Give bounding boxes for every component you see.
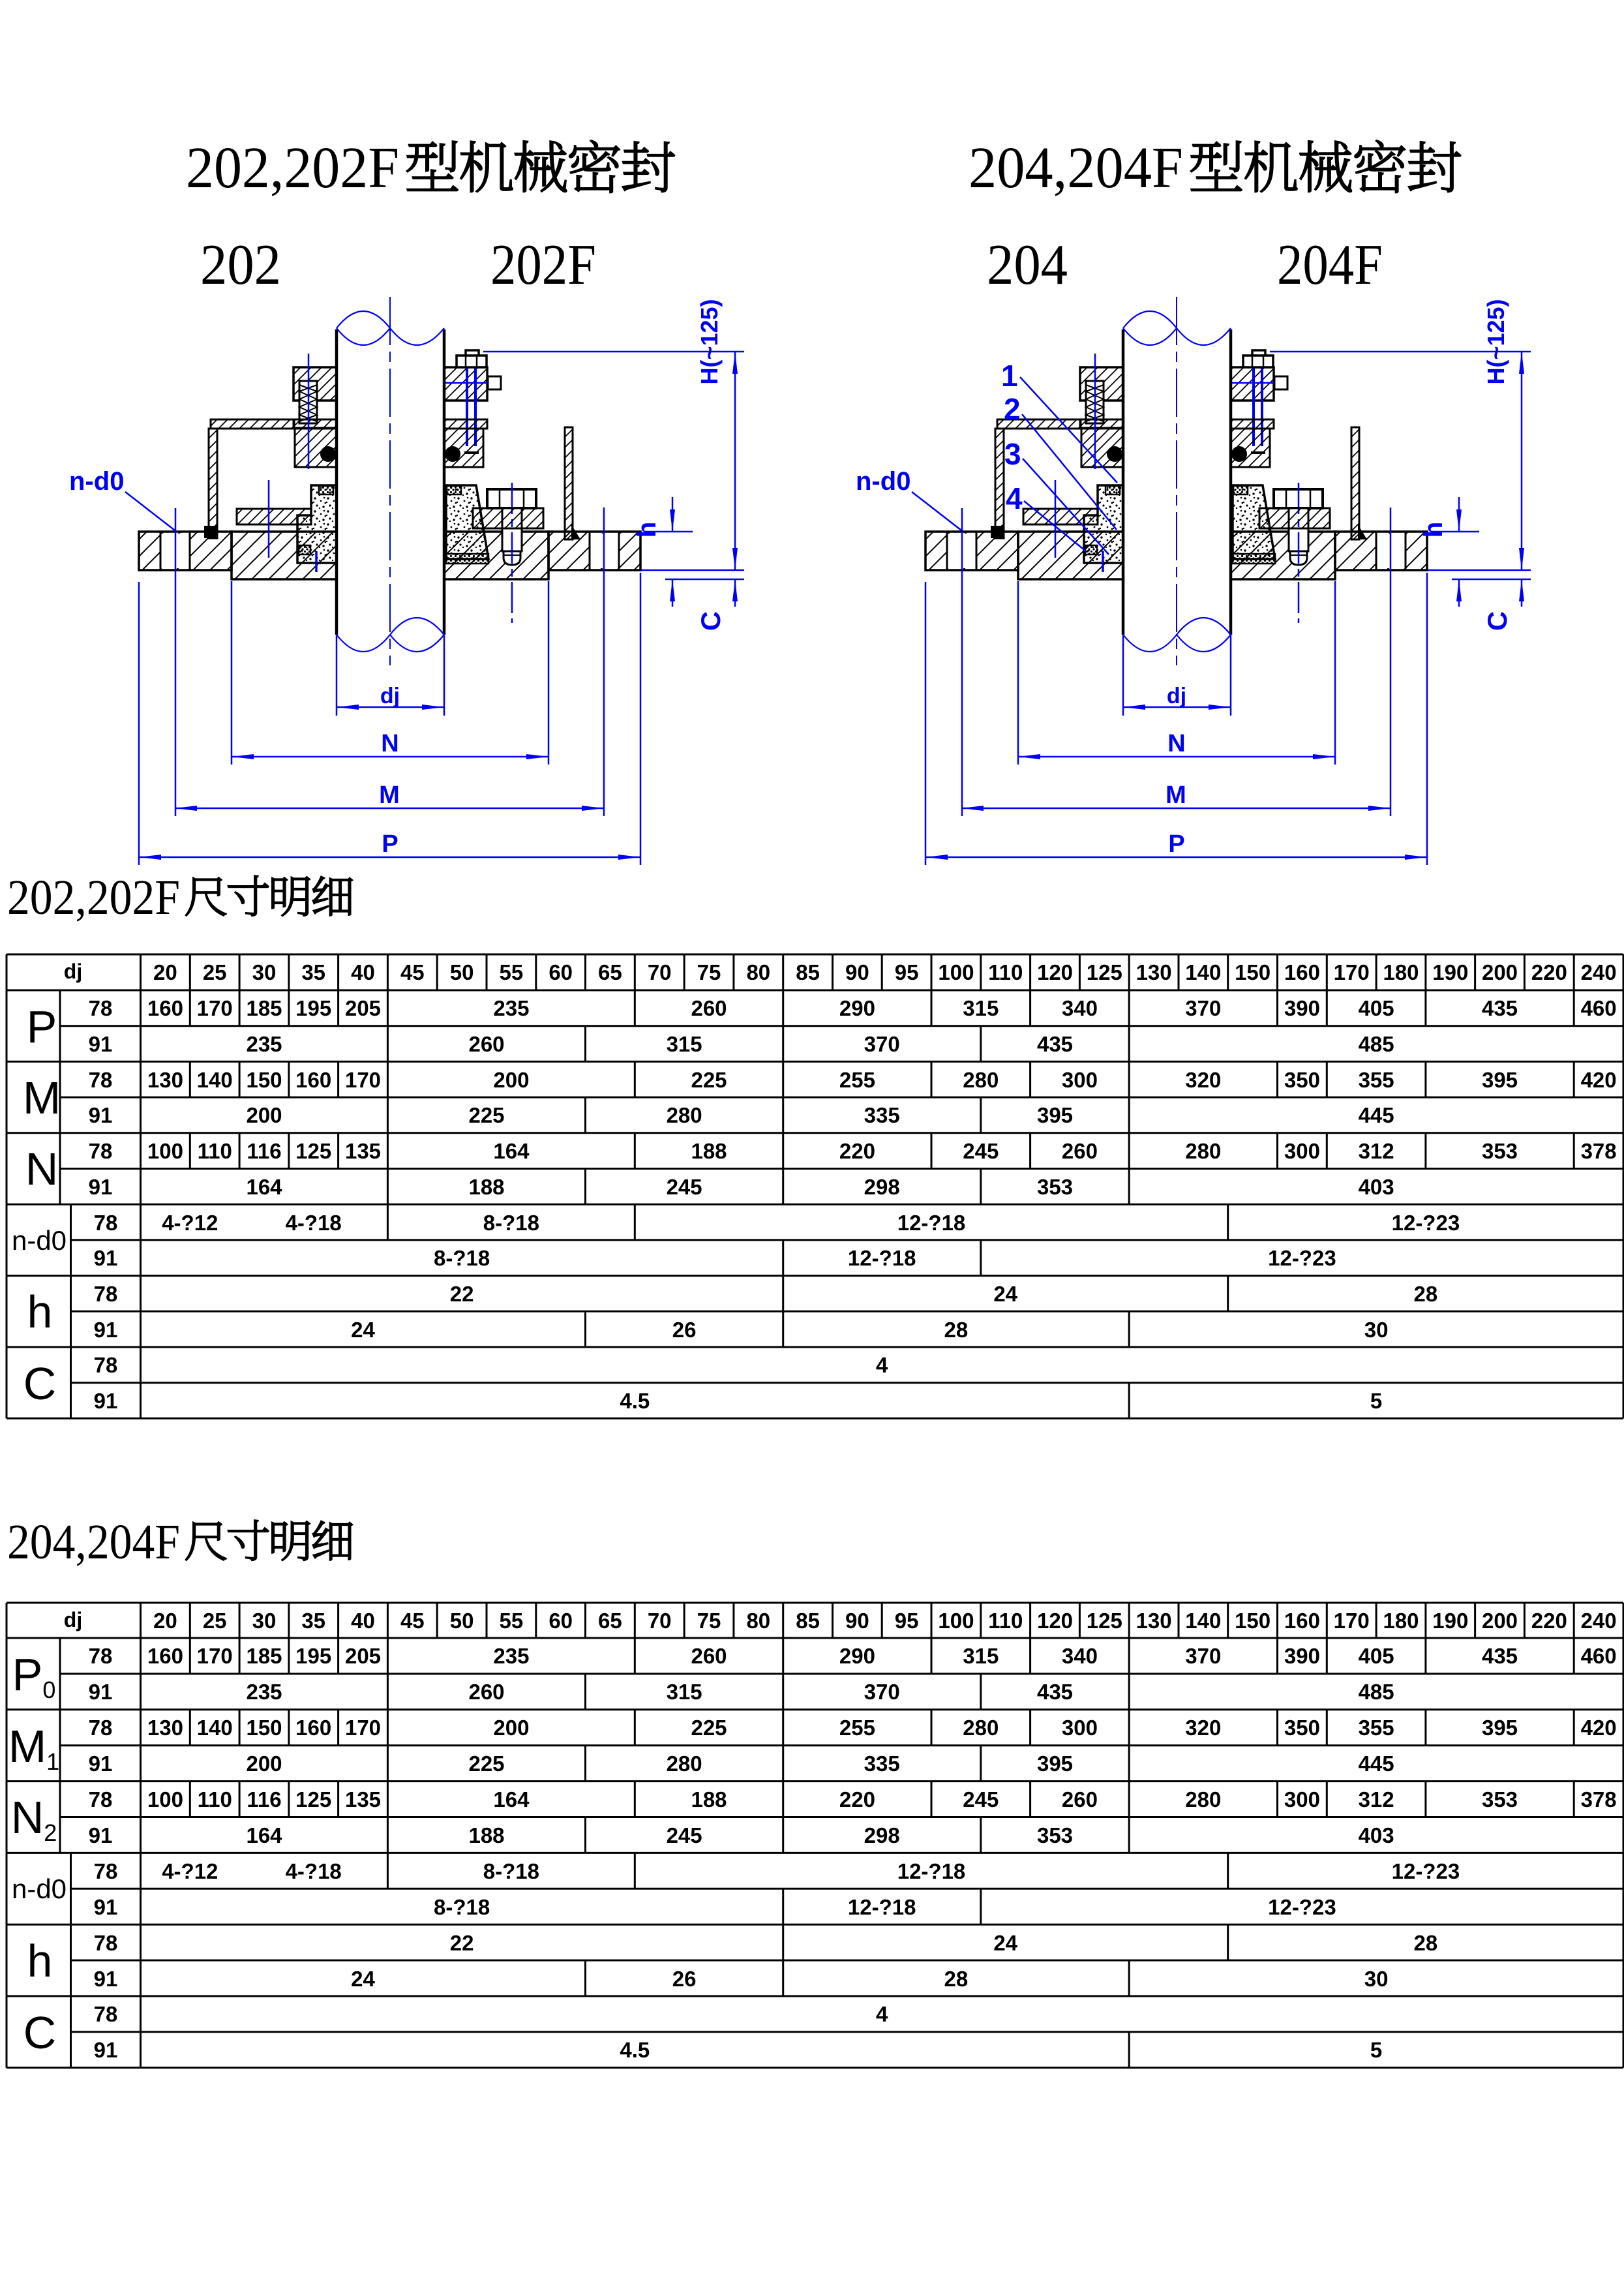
svg-text:370: 370 [864, 1680, 900, 1704]
svg-text:90: 90 [845, 960, 869, 984]
svg-text:200: 200 [246, 1103, 282, 1127]
svg-text:164: 164 [493, 1139, 530, 1163]
svg-text:24: 24 [351, 1318, 375, 1342]
svg-text:485: 485 [1359, 1032, 1394, 1056]
svg-text:26: 26 [672, 1318, 697, 1342]
svg-text:91: 91 [89, 1680, 113, 1704]
svg-text:5: 5 [1370, 2038, 1382, 2062]
svg-text:78: 78 [89, 1716, 113, 1740]
svg-text:110: 110 [198, 1787, 232, 1811]
flange bolt hole right [590, 534, 619, 568]
svg-text:204: 204 [987, 234, 1068, 297]
svg-text:8-?18: 8-?18 [483, 1211, 539, 1235]
svg-text:378: 378 [1581, 1787, 1617, 1811]
svg-text:200: 200 [1482, 960, 1518, 984]
svg-text:4-?18: 4-?18 [286, 1211, 342, 1235]
svg-text:78: 78 [94, 1859, 118, 1883]
svg-text:5: 5 [1370, 1389, 1382, 1413]
flange right rim [549, 532, 640, 570]
svg-text:312: 312 [1359, 1787, 1394, 1811]
gland plate top (202) [293, 367, 337, 401]
svg-text:225: 225 [691, 1068, 727, 1092]
svg-text:12-?23: 12-?23 [1268, 1895, 1336, 1919]
svg-text:195: 195 [295, 1644, 331, 1668]
bolt centerline [511, 483, 513, 623]
svg-text:160: 160 [147, 1644, 183, 1668]
svg-text:91: 91 [89, 1175, 113, 1199]
svg-text:435: 435 [1037, 1680, 1073, 1704]
spring box (202) [299, 381, 317, 423]
svg-text:220: 220 [1531, 960, 1567, 984]
svg-text:403: 403 [1359, 1175, 1394, 1199]
svg-text:255: 255 [839, 1716, 875, 1740]
svg-text:164: 164 [246, 1823, 282, 1847]
svg-text:30: 30 [1364, 1967, 1389, 1991]
svg-text:435: 435 [1037, 1032, 1073, 1056]
svg-text:91: 91 [94, 1318, 118, 1342]
svg-text:4: 4 [1006, 481, 1023, 515]
svg-text:225: 225 [468, 1751, 504, 1776]
svg-text:125: 125 [1087, 960, 1122, 984]
svg-text:91: 91 [94, 1895, 118, 1919]
svg-text:140: 140 [1185, 960, 1221, 984]
svg-text:353: 353 [1037, 1823, 1073, 1847]
svg-text:315: 315 [963, 1644, 999, 1668]
svg-text:188: 188 [468, 1175, 504, 1199]
svg-text:125: 125 [295, 1787, 331, 1811]
svg-text:n-d0: n-d0 [69, 467, 124, 496]
svg-text:280: 280 [1185, 1139, 1221, 1163]
packing square (202) [299, 545, 310, 554]
gland stud centerline (202) [268, 480, 270, 558]
svg-text:22: 22 [450, 1282, 474, 1306]
svg-text:90: 90 [845, 1609, 869, 1633]
shaft centerline [389, 297, 391, 665]
svg-text:12-?23: 12-?23 [1392, 1859, 1460, 1883]
svg-text:260: 260 [1062, 1139, 1098, 1163]
svg-text:255: 255 [839, 1068, 875, 1092]
svg-text:50: 50 [450, 960, 474, 984]
svg-text:395: 395 [1482, 1716, 1518, 1740]
svg-text:12-?18: 12-?18 [848, 1246, 916, 1270]
svg-text:240: 240 [1581, 960, 1617, 984]
svg-text:4.5: 4.5 [620, 2038, 650, 2062]
svg-text:M: M [379, 781, 400, 809]
svg-text:25: 25 [203, 1609, 227, 1633]
right diagram: 204/204F seal cross-section (reused geometry) [856, 297, 1531, 865]
svg-text:8-?18: 8-?18 [434, 1895, 490, 1919]
svg-text:235: 235 [246, 1032, 282, 1056]
svg-text:298: 298 [864, 1823, 900, 1847]
svg-text:445: 445 [1359, 1751, 1394, 1776]
svg-text:91: 91 [89, 1103, 113, 1127]
svg-text:170: 170 [1334, 960, 1370, 984]
svg-text:180: 180 [1383, 960, 1419, 984]
svg-text:185: 185 [246, 996, 282, 1020]
svg-text:85: 85 [796, 1609, 820, 1633]
svg-text:164: 164 [246, 1175, 282, 1199]
svg-text:420: 420 [1581, 1716, 1617, 1740]
svg-text:150: 150 [1235, 960, 1271, 984]
svg-text:24: 24 [993, 1931, 1017, 1955]
svg-text:8-?18: 8-?18 [483, 1859, 539, 1883]
svg-text:C: C [695, 611, 726, 631]
svg-text:95: 95 [895, 960, 919, 984]
svg-text:1: 1 [1001, 359, 1018, 393]
rotary ring block (202) [295, 429, 337, 467]
svg-text:245: 245 [667, 1175, 702, 1199]
hex bolt tip [504, 551, 520, 565]
seat cup left wall (202) [209, 429, 217, 538]
svg-text:395: 395 [1037, 1751, 1073, 1776]
svg-text:390: 390 [1284, 1644, 1320, 1668]
svg-text:240: 240 [1581, 1609, 1617, 1633]
svg-text:370: 370 [864, 1032, 900, 1056]
flange left rim [139, 532, 232, 570]
spring centerline (202) [308, 354, 310, 469]
flange right center block [444, 532, 549, 579]
svg-text:190: 190 [1432, 960, 1468, 984]
svg-text:dj: dj [64, 1608, 82, 1631]
svg-text:78: 78 [89, 1787, 113, 1811]
svg-text:170: 170 [345, 1068, 381, 1092]
svg-text:485: 485 [1359, 1680, 1394, 1704]
svg-text:N: N [381, 730, 398, 757]
svg-text:204,204F: 204,204F [969, 136, 1183, 200]
svg-text:24: 24 [351, 1967, 375, 1991]
cup wall fillet [204, 526, 217, 538]
svg-text:135: 135 [345, 1139, 381, 1163]
svg-text:205: 205 [345, 996, 381, 1020]
stationary seat (202, stippled) [297, 485, 337, 563]
svg-text:200: 200 [1482, 1609, 1518, 1633]
dim P [139, 856, 640, 858]
svg-text:h: h [633, 522, 661, 538]
svg-text:20: 20 [153, 1609, 177, 1633]
gland follower plate (202) [237, 509, 311, 524]
table 1: 202,202F dimensions [7, 954, 1623, 1418]
svg-text:350: 350 [1284, 1716, 1320, 1740]
set screw (202F) [445, 382, 501, 384]
dim h [644, 531, 693, 533]
clamp fillet [571, 524, 580, 539]
svg-text:65: 65 [598, 1609, 622, 1633]
svg-text:P0: P0 [12, 1649, 56, 1703]
svg-text:200: 200 [246, 1751, 282, 1776]
svg-text:235: 235 [493, 996, 529, 1020]
svg-text:78: 78 [94, 1931, 118, 1955]
svg-text:195: 195 [295, 996, 331, 1020]
svg-text:P: P [382, 830, 398, 858]
svg-text:91: 91 [94, 2038, 118, 2062]
packing band (202F) [446, 554, 489, 564]
svg-text:315: 315 [963, 996, 999, 1020]
dim dj [337, 706, 444, 708]
svg-text:25: 25 [203, 960, 227, 984]
svg-text:78: 78 [94, 1282, 118, 1306]
spring zigzag [299, 385, 317, 421]
svg-text:202: 202 [200, 234, 281, 297]
part number leaders 1-4 [1001, 359, 1023, 515]
svg-text:28: 28 [1414, 1931, 1438, 1955]
svg-text:4-?12: 4-?12 [162, 1211, 218, 1235]
svg-text:204F: 204F [1277, 234, 1383, 297]
svg-text:188: 188 [691, 1787, 727, 1811]
svg-text:420: 420 [1581, 1068, 1617, 1092]
svg-text:170: 170 [197, 996, 233, 1020]
svg-text:100: 100 [147, 1139, 183, 1163]
svg-text:110: 110 [988, 1609, 1023, 1633]
extension lines [138, 582, 140, 865]
svg-text:140: 140 [197, 1068, 233, 1092]
svg-text:353: 353 [1482, 1787, 1518, 1811]
svg-text:280: 280 [963, 1068, 999, 1092]
svg-text:350: 350 [1284, 1068, 1320, 1092]
svg-text:180: 180 [1383, 1609, 1419, 1633]
svg-text:n-d0: n-d0 [12, 1873, 67, 1904]
svg-text:370: 370 [1185, 1644, 1221, 1668]
svg-text:190: 190 [1432, 1609, 1468, 1633]
seat cup top wall (202) [211, 419, 293, 429]
shaft [335, 329, 338, 635]
packing square top (202) [319, 486, 333, 494]
gland lower plate (202F) [444, 419, 487, 429]
svg-text:403: 403 [1359, 1823, 1394, 1847]
svg-text:395: 395 [1482, 1068, 1518, 1092]
svg-text:300: 300 [1062, 1068, 1098, 1092]
svg-text:35: 35 [301, 960, 325, 984]
svg-text:110: 110 [198, 1139, 232, 1163]
svg-text:75: 75 [697, 1609, 721, 1633]
svg-text:188: 188 [691, 1139, 727, 1163]
svg-text:130: 130 [1136, 960, 1172, 984]
svg-text:100: 100 [938, 1609, 974, 1633]
dim N [232, 756, 549, 758]
svg-text:28: 28 [944, 1318, 969, 1342]
svg-text:55: 55 [500, 960, 524, 984]
svg-text:40: 40 [351, 960, 375, 984]
svg-text:45: 45 [400, 960, 425, 984]
table 2: 204,204F dimensions [7, 1603, 1623, 2068]
svg-text:245: 245 [963, 1139, 999, 1163]
svg-text:91: 91 [89, 1032, 113, 1056]
svg-text:75: 75 [697, 960, 721, 984]
svg-text:P: P [27, 1001, 57, 1052]
svg-text:35: 35 [301, 1609, 325, 1633]
svg-text:116: 116 [247, 1139, 281, 1163]
stud bolt (202F) [466, 352, 468, 446]
svg-text:12-?23: 12-?23 [1268, 1246, 1336, 1270]
svg-text:N2: N2 [11, 1792, 57, 1846]
packing square top (202F) [447, 486, 461, 494]
svg-text:80: 80 [746, 1609, 770, 1633]
svg-text:N: N [25, 1144, 59, 1194]
svg-text:60: 60 [549, 1609, 573, 1633]
svg-text:260: 260 [691, 996, 727, 1020]
svg-text:116: 116 [247, 1787, 281, 1811]
svg-text:245: 245 [667, 1823, 702, 1847]
svg-text:C: C [23, 1358, 57, 1409]
svg-text:135: 135 [345, 1787, 381, 1811]
svg-text:202F: 202F [490, 234, 596, 297]
svg-text:91: 91 [94, 1389, 118, 1413]
shaft break line top [337, 311, 444, 345]
svg-text:160: 160 [295, 1716, 331, 1740]
svg-text:235: 235 [246, 1680, 282, 1704]
svg-text:40: 40 [351, 1609, 375, 1633]
svg-text:204,204F: 204,204F [7, 1515, 180, 1569]
svg-text:390: 390 [1284, 996, 1320, 1020]
svg-text:12-?18: 12-?18 [897, 1859, 966, 1883]
clamp plate (202F) [565, 427, 573, 539]
svg-text:280: 280 [963, 1716, 999, 1740]
svg-text:220: 220 [1531, 1609, 1567, 1633]
svg-text:120: 120 [1037, 960, 1073, 984]
svg-text:30: 30 [252, 1609, 277, 1633]
svg-text:4: 4 [876, 2002, 888, 2026]
svg-text:280: 280 [667, 1103, 702, 1127]
svg-text:20: 20 [153, 960, 177, 984]
svg-text:335: 335 [864, 1751, 900, 1776]
left diagram: 202/202F seal cross-section [69, 297, 744, 865]
svg-text:70: 70 [648, 960, 672, 984]
svg-text:435: 435 [1482, 996, 1518, 1020]
svg-text:320: 320 [1185, 1068, 1221, 1092]
gland plate top (202F) [444, 367, 487, 401]
stud cap nut [466, 350, 479, 360]
dim C [641, 569, 744, 571]
svg-text:C: C [23, 2007, 57, 2058]
svg-text:355: 355 [1359, 1068, 1394, 1092]
hex bolt shank [502, 508, 522, 551]
svg-text:45: 45 [400, 1609, 425, 1633]
o-ring (202) [320, 446, 336, 462]
svg-text:78: 78 [89, 1644, 113, 1668]
dim M [175, 808, 604, 810]
rotary ring block (202F) [444, 429, 483, 467]
svg-text:300: 300 [1284, 1139, 1320, 1163]
svg-text:M1: M1 [8, 1721, 59, 1775]
svg-text:160: 160 [1284, 1609, 1320, 1633]
stationary seat (202F, stippled) [446, 485, 489, 559]
svg-text:185: 185 [246, 1644, 282, 1668]
svg-text:460: 460 [1581, 1644, 1617, 1668]
svg-text:91: 91 [89, 1823, 113, 1847]
svg-text:4-?12: 4-?12 [162, 1859, 218, 1883]
svg-text:140: 140 [197, 1716, 233, 1740]
svg-text:28: 28 [1414, 1282, 1438, 1306]
svg-text:130: 130 [147, 1716, 183, 1740]
svg-text:225: 225 [691, 1716, 727, 1740]
svg-text:55: 55 [500, 1609, 524, 1633]
svg-text:260: 260 [1062, 1787, 1098, 1811]
svg-text:30: 30 [252, 960, 277, 984]
hex bolt head (202F) [487, 489, 536, 508]
svg-text:140: 140 [1185, 1609, 1221, 1633]
svg-text:22: 22 [450, 1931, 474, 1955]
svg-text:405: 405 [1359, 996, 1394, 1020]
svg-text:340: 340 [1062, 996, 1098, 1020]
svg-text:78: 78 [94, 2002, 118, 2026]
svg-text:78: 78 [94, 1211, 118, 1235]
svg-text:M: M [23, 1072, 61, 1123]
flange bolt hole left [160, 534, 190, 568]
svg-text:445: 445 [1359, 1103, 1394, 1127]
o-ring (202F) [445, 446, 460, 462]
svg-text:12-?23: 12-?23 [1392, 1211, 1460, 1235]
svg-text:202,202F: 202,202F [186, 136, 399, 200]
dim H [483, 351, 744, 353]
svg-text:378: 378 [1581, 1139, 1617, 1163]
svg-text:335: 335 [864, 1103, 900, 1127]
svg-text:260: 260 [468, 1680, 504, 1704]
svg-text:70: 70 [648, 1609, 672, 1633]
svg-text:160: 160 [147, 996, 183, 1020]
svg-text:170: 170 [197, 1644, 233, 1668]
svg-text:91: 91 [89, 1751, 113, 1776]
svg-text:100: 100 [938, 960, 974, 984]
gland lower plate (202) [294, 419, 337, 428]
svg-text:95: 95 [895, 1609, 919, 1633]
svg-text:205: 205 [345, 1644, 381, 1668]
svg-text:78: 78 [89, 1068, 113, 1092]
svg-text:188: 188 [468, 1823, 504, 1847]
svg-text:290: 290 [839, 1644, 875, 1668]
svg-text:130: 130 [1136, 1609, 1172, 1633]
shaft break line bottom [337, 618, 444, 652]
svg-text:110: 110 [988, 960, 1023, 984]
svg-text:125: 125 [1087, 1609, 1122, 1633]
svg-text:320: 320 [1185, 1716, 1221, 1740]
svg-text:280: 280 [1185, 1787, 1221, 1811]
svg-text:12-?18: 12-?18 [897, 1211, 966, 1235]
svg-text:235: 235 [493, 1644, 529, 1668]
svg-text:200: 200 [493, 1068, 529, 1092]
svg-text:160: 160 [295, 1068, 331, 1092]
svg-text:H(~125): H(~125) [696, 299, 723, 384]
svg-text:4.5: 4.5 [620, 1389, 650, 1413]
svg-text:300: 300 [1062, 1716, 1098, 1740]
svg-text:80: 80 [746, 960, 770, 984]
svg-text:290: 290 [839, 996, 875, 1020]
svg-text:120: 120 [1037, 1609, 1073, 1633]
svg-text:h: h [27, 1286, 53, 1337]
svg-text:4: 4 [876, 1353, 888, 1377]
svg-text:dj: dj [380, 684, 400, 708]
svg-text:91: 91 [94, 1967, 118, 1991]
svg-text:12-?18: 12-?18 [848, 1895, 916, 1919]
svg-text:298: 298 [864, 1175, 900, 1199]
svg-text:395: 395 [1037, 1103, 1073, 1127]
svg-text:300: 300 [1284, 1787, 1320, 1811]
svg-text:100: 100 [147, 1787, 183, 1811]
svg-text:28: 28 [944, 1967, 969, 1991]
svg-text:220: 220 [839, 1787, 875, 1811]
svg-text:220: 220 [839, 1139, 875, 1163]
svg-text:315: 315 [667, 1680, 702, 1704]
svg-text:150: 150 [246, 1068, 282, 1092]
svg-text:n-d0: n-d0 [12, 1225, 67, 1256]
svg-text:91: 91 [94, 1246, 118, 1270]
svg-text:78: 78 [89, 1139, 113, 1163]
svg-text:355: 355 [1359, 1716, 1394, 1740]
svg-text:225: 225 [468, 1103, 504, 1127]
svg-text:150: 150 [1235, 1609, 1271, 1633]
svg-text:170: 170 [1334, 1609, 1370, 1633]
svg-text:dj: dj [64, 960, 82, 983]
svg-text:312: 312 [1359, 1139, 1394, 1163]
svg-text:280: 280 [667, 1751, 702, 1776]
